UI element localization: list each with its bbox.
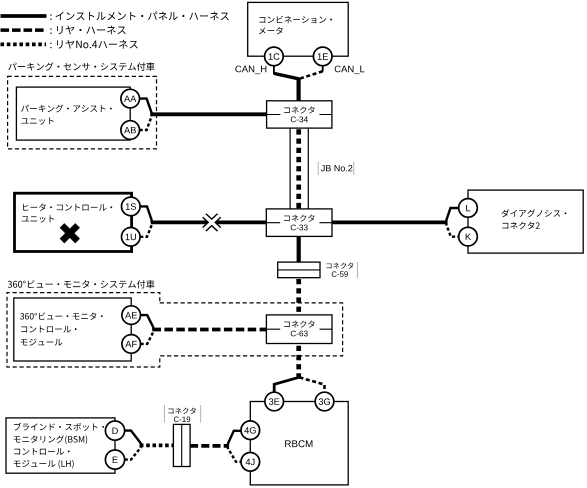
- wire junction to 4G (solid): [228, 431, 241, 446]
- JB No.2 label left bar: [317, 162, 319, 176]
- deleted mark (bold X) inside heater box: [62, 225, 78, 241]
- wire C-33 to diagnosis junction (solid): [332, 220, 447, 224]
- wire AA to junction (solid): [140, 99, 152, 115]
- BSM module label line2: [14, 435, 87, 444]
- wire AE to junction (solid): [141, 315, 154, 329]
- wire 1C to junction (solid, CAN_H): [274, 73, 299, 78]
- wire 1E stub: [322, 66, 324, 72]
- legend label: instrument panel harness: [50, 12, 228, 21]
- wire BSM junction to C-19 (dotted, rear No.4 harness): [140, 444, 174, 448]
- legend label: rear No.4 harness: [50, 40, 137, 49]
- BSM control module box: [6, 418, 115, 473]
- label RBCM: [285, 440, 312, 447]
- pin 4J: [241, 453, 260, 472]
- parking assist unit label line2: [21, 117, 53, 124]
- combination meter label line2: [259, 27, 283, 34]
- pin K: [459, 227, 478, 246]
- wire heater junction to connector C-33 (solid): [151, 220, 266, 224]
- diagnosis connector 2 box: [468, 190, 583, 253]
- BSM module label line4: [14, 460, 74, 469]
- heater control unit box (thick border): [15, 193, 132, 251]
- connector C-19 label jp: [168, 408, 195, 414]
- wire junction to L (solid): [446, 208, 459, 222]
- parking assist unit label line1: [21, 105, 112, 113]
- parking sensor system dashed enclosure: [8, 76, 157, 148]
- pin 3G: [315, 392, 334, 411]
- 360 view monitor system label: [8, 280, 155, 288]
- pin 1E: [313, 47, 332, 66]
- legend line: instrument panel harness (solid): [1, 14, 47, 18]
- connector C-34: [267, 101, 332, 128]
- wire junction to 3G (dashed): [300, 377, 325, 392]
- wire junction to 4J (dashed): [228, 446, 241, 462]
- parking sensor system label: [8, 62, 154, 70]
- wire D to junction (solid): [125, 431, 141, 446]
- wire C-59 to C-63 (thick dashed): [296, 279, 301, 315]
- wire 360 junction to connector C-63 (thick dashed, rear harness): [153, 328, 267, 332]
- combination meter box: [248, 2, 349, 56]
- pin AE: [122, 306, 141, 325]
- C-59 label right bar: [357, 262, 359, 278]
- 360 view monitor module label line3: [21, 339, 63, 346]
- pin 1C: [265, 47, 284, 66]
- wire 1S to junction (solid): [140, 206, 152, 222]
- wire 1E to junction (dashed, CAN_L): [300, 71, 323, 78]
- combination meter label line1: [259, 16, 332, 24]
- pin D: [105, 421, 124, 440]
- JB No.2 rail left: [289, 128, 291, 209]
- connector C-63: [266, 315, 332, 344]
- wire C-63 to split junction (thick dashed): [296, 345, 301, 379]
- 360 view monitor module label line1: [20, 312, 103, 319]
- connector C-59 label: [332, 271, 348, 277]
- BSM module label line3: [14, 448, 69, 455]
- BSM module label line1: [14, 423, 104, 431]
- wire C-19 to RBCM junction (thick dashed, rear harness): [190, 444, 228, 448]
- wire C-33 to C-59 (solid trunk): [297, 236, 301, 262]
- no-connection mark (outlined X) on wire: [204, 216, 219, 230]
- legend line: rear No.4 harness (dotted): [1, 43, 47, 47]
- pin AB: [121, 121, 140, 140]
- JB No.2 label right bar: [353, 162, 355, 176]
- connector C-19 label: [174, 416, 190, 422]
- connector C-19 (inline connector symbol): [173, 424, 190, 466]
- 360 view monitor control module box: [14, 298, 131, 361]
- pin AA: [121, 89, 140, 108]
- JB No.2 rail right: [307, 128, 309, 209]
- C-19 label left bar: [163, 405, 165, 423]
- wire 1C stub (solid): [273, 66, 275, 75]
- parking assist unit box: [16, 87, 130, 140]
- pin L: [459, 199, 478, 218]
- pin 4G: [241, 421, 260, 440]
- connector C-33: [266, 209, 332, 237]
- diagnosis connector 2 label line2: [502, 222, 539, 229]
- 360 view monitor module label line2: [21, 326, 76, 333]
- wire parking junction to connector C-34 (solid): [151, 112, 267, 116]
- connector C-59 label jp: [327, 263, 354, 269]
- pin 1S: [122, 197, 141, 216]
- wire junction to connector C-34 (trunk): [297, 78, 301, 101]
- legend line: rear harness (dashed): [1, 28, 47, 32]
- wire AB to junction (dashed): [140, 114, 152, 130]
- pin 3E: [265, 392, 284, 411]
- label JB No.2: [321, 165, 352, 171]
- label CAN_H: [235, 66, 266, 75]
- diagnosis connector 2 label line1: [502, 209, 567, 217]
- legend label: rear harness: [50, 26, 125, 35]
- pin AF: [122, 335, 141, 354]
- 360 view monitor dashed enclosure (L-shaped union): [7, 293, 343, 367]
- heater control unit label line2: [22, 215, 54, 222]
- pin 1U: [122, 228, 141, 247]
- wire C-34 to C-33 through JB No.2 (thick dashed, rear harness): [296, 129, 301, 209]
- label CAN_L: [335, 66, 365, 75]
- pin E: [105, 450, 124, 469]
- wire E to junction (dashed): [125, 445, 141, 459]
- wire 1U to junction (dashed): [140, 222, 152, 236]
- connector C-59 (inline connector symbol): [278, 262, 320, 278]
- wire junction to 3E (solid): [274, 377, 299, 392]
- heater control unit label line1: [23, 204, 112, 211]
- C-19 label right bar: [200, 405, 202, 423]
- wire junction to K (dashed): [446, 222, 459, 236]
- wire AF to junction (dashed): [141, 330, 154, 344]
- RBCM box: [250, 402, 348, 485]
